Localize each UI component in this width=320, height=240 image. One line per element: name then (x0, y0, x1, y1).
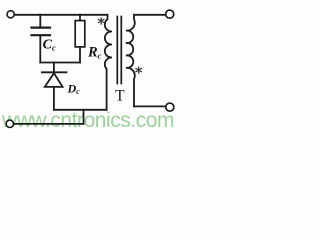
wire: resistor bottom lead (79, 47, 81, 63)
diode Dc triangle (45, 73, 63, 87)
wire: capacitor top lead (39, 15, 41, 27)
top rail wire (15, 14, 107, 16)
transformer T primary winding (105, 15, 112, 110)
wire: bottom rail (14, 123, 84, 125)
transformer T core (116, 17, 118, 84)
transformer T secondary winding (126, 15, 135, 107)
wire: resistor top lead (79, 15, 81, 21)
wire: tee down to bottom rail (83, 110, 85, 124)
wire: mid rail (54, 109, 107, 111)
watermark www.cntronics.com (1, 109, 174, 132)
label Dc (67, 81, 81, 96)
svg-text:www.cntronics.com: www.cntronics.com (1, 109, 174, 132)
polarity dot asterisk primary (98, 18, 104, 24)
node B: bottom-left input terminal (6, 120, 13, 127)
wire: secondary bottom lead (134, 105, 166, 107)
resistor Rc body (75, 21, 85, 47)
node A: top-left input terminal (7, 11, 14, 18)
wire: secondary top lead (134, 14, 166, 16)
label Cc (43, 38, 56, 53)
wire: diode bottom lead (53, 87, 55, 110)
wire: C-R junction (40, 62, 80, 64)
node D: bottom-right output terminal (166, 103, 174, 111)
wire: diode top stub (53, 63, 55, 72)
node C: top-right output terminal (166, 10, 174, 18)
polarity dot asterisk secondary (136, 67, 142, 73)
svg-text:T: T (115, 88, 125, 105)
wire: capacitor bottom lead (39, 36, 41, 63)
diode Dc cathode bar (42, 71, 66, 73)
label T (115, 88, 125, 105)
capacitor Cc plates (32, 27, 51, 29)
label Rc (87, 44, 102, 60)
